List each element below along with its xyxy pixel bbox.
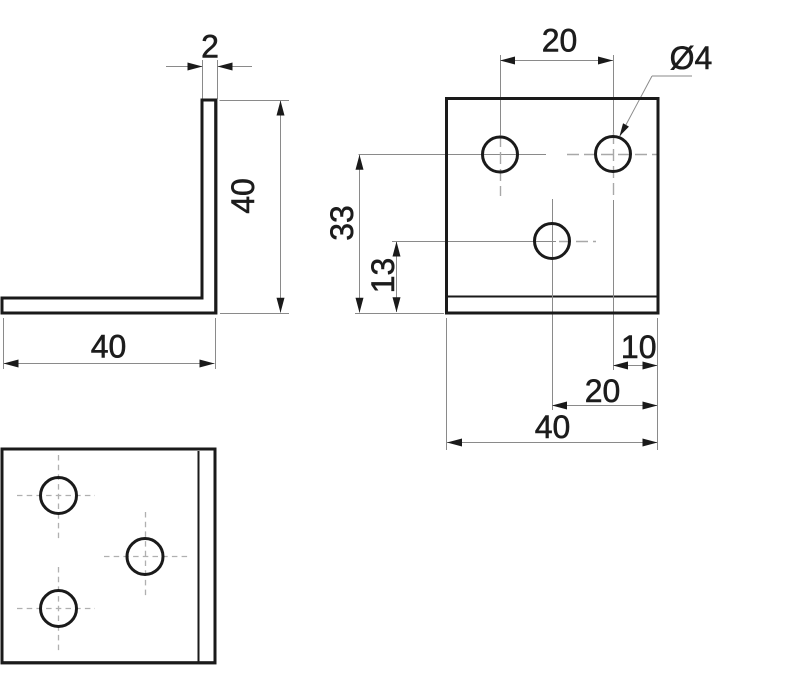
svg-text:13: 13 — [365, 258, 401, 294]
svg-text:40: 40 — [225, 178, 261, 214]
svg-text:33: 33 — [324, 205, 360, 241]
svg-text:2: 2 — [201, 29, 219, 65]
svg-text:Ø4: Ø4 — [670, 40, 713, 76]
svg-text:40: 40 — [91, 329, 127, 365]
svg-text:10: 10 — [621, 329, 657, 365]
svg-text:40: 40 — [535, 409, 571, 445]
svg-text:20: 20 — [585, 373, 621, 409]
svg-text:20: 20 — [542, 23, 578, 59]
